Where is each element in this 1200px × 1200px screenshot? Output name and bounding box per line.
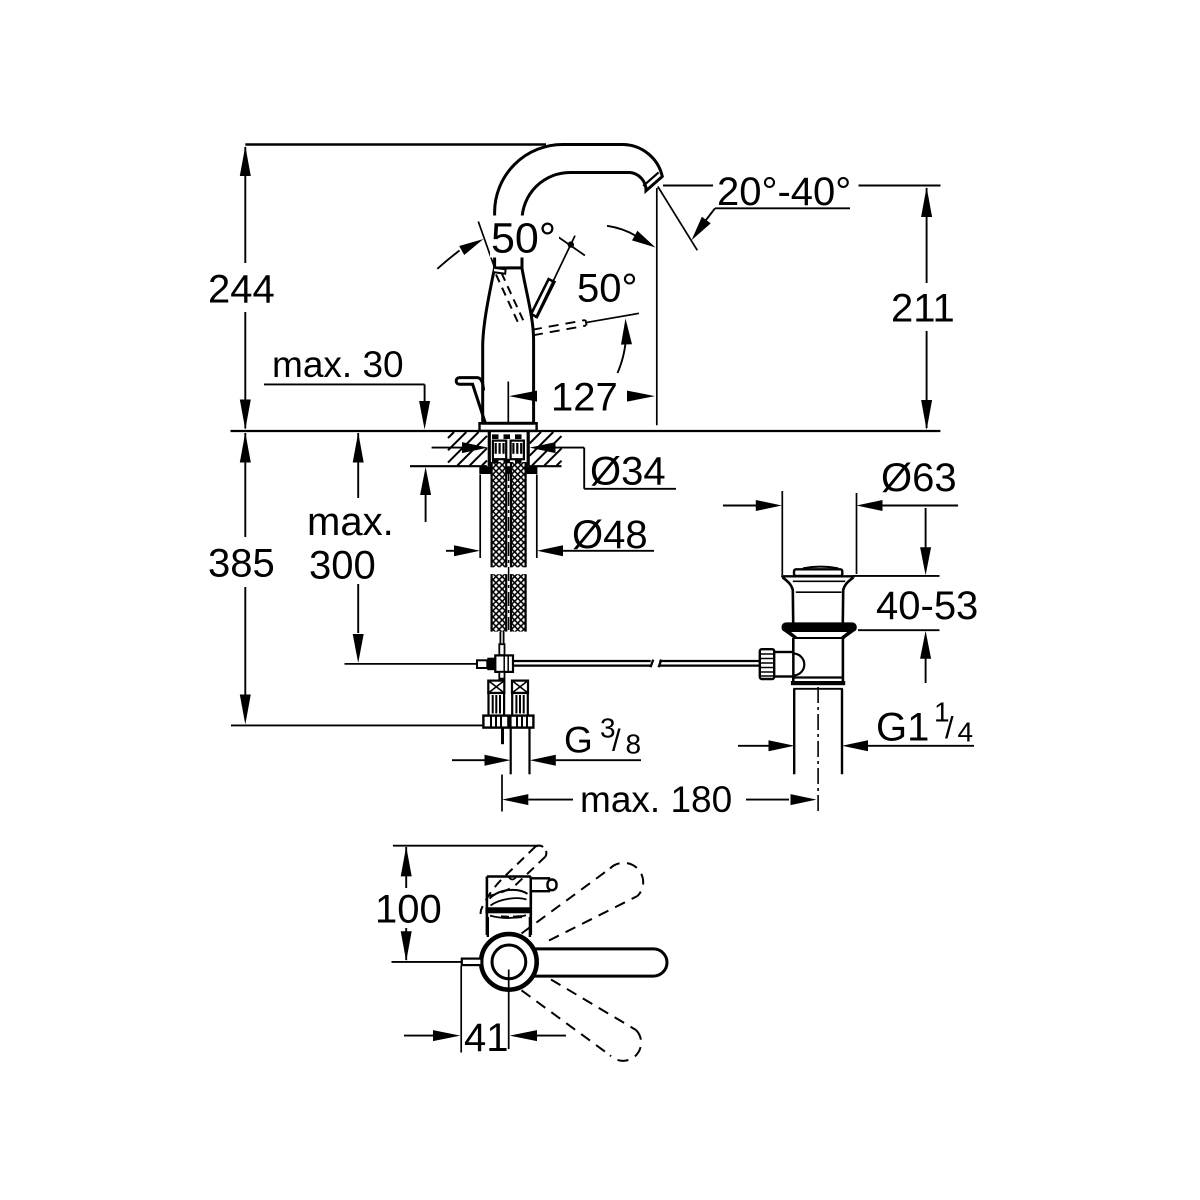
braided hose left lower section [491, 574, 507, 631]
supply pipe left in shank [493, 441, 506, 460]
dimension 40-53 bottom reference [858, 629, 940, 631]
svg-text:max. 30: max. 30 [272, 344, 404, 385]
handle boss outer circle [481, 934, 537, 990]
dimension 244 top reference line [245, 143, 546, 145]
right connector pipe walls [510, 728, 512, 775]
label G1 1/4 [876, 697, 973, 750]
svg-text:244: 244 [208, 268, 275, 312]
valve o-ring seal [782, 622, 857, 632]
dimension G3/8 [452, 713, 641, 766]
dimension O48 [446, 513, 654, 557]
spray direction reference line [586, 313, 639, 322]
spout tip vertical reference line [656, 188, 658, 425]
pop-up rod T coupler bottom stub [499, 672, 504, 679]
dashed handle position lower [522, 980, 642, 1061]
SECTION: side view dimensions [208, 145, 955, 821]
plan view cartridge housing [487, 877, 531, 936]
spray direction dashed tube [532, 320, 585, 330]
dimension 385 [208, 433, 275, 725]
svg-text:max.: max. [307, 500, 394, 544]
swivel arc arrow right of riser [607, 226, 642, 240]
svg-text:300: 300 [309, 544, 376, 588]
valve tailpipe walls [793, 689, 795, 774]
svg-text:100: 100 [375, 888, 442, 932]
valve centre line [817, 687, 819, 812]
counter underside line right [529, 465, 561, 467]
valve bottom flange [793, 676, 843, 678]
pivot centre dot [568, 241, 574, 247]
dimension max.180 [502, 779, 816, 820]
plan view top notch [509, 877, 517, 880]
solid handle pointing right [521, 949, 667, 976]
lever handle side view [459, 378, 484, 391]
svg-text:/: / [612, 723, 621, 758]
left connector tail [501, 728, 504, 745]
svg-text:Ø34: Ø34 [590, 450, 666, 494]
pop-up rod left piece [513, 660, 653, 668]
valve plunger knob [803, 567, 838, 569]
pop-up rod T coupler [477, 655, 513, 672]
hose lower tube below left braid [499, 632, 501, 645]
counter cross-section hatching left [448, 432, 487, 466]
svg-text:/: / [945, 710, 954, 745]
svg-text:211: 211 [891, 287, 955, 331]
supply pipe right in shank [511, 441, 524, 460]
valve body walls [792, 638, 795, 681]
G3/8 connector left [483, 681, 508, 728]
svg-text:20°-40°: 20°-40° [717, 170, 851, 214]
O63 extension line right [856, 493, 858, 574]
dimension max.30 [264, 344, 431, 522]
jet angle leader upper [663, 185, 713, 187]
plan view spout dashed outline [481, 847, 546, 915]
valve top flange [781, 575, 855, 577]
hose centre dash-dot line [508, 467, 510, 630]
dimension 100 top reference line [393, 845, 539, 847]
hidden lever position dashed lines [496, 275, 518, 323]
O63 extension line left [781, 491, 783, 575]
threaded shank wall right [527, 432, 530, 467]
escutcheon base plate [480, 423, 537, 431]
G3/8 connector right [510, 681, 533, 728]
dimension 211 [891, 187, 955, 430]
svg-text:8: 8 [626, 729, 642, 760]
dimension 40-53 [876, 508, 978, 683]
svg-text:50°: 50° [491, 215, 556, 263]
lever pivot axis line [536, 236, 576, 318]
svg-text:max. 180: max. 180 [580, 779, 732, 820]
jet angle leader to 211 [859, 185, 941, 187]
svg-text:G: G [564, 720, 593, 761]
label 50 degrees (handle) [490, 216, 559, 258]
svg-text:40-53: 40-53 [876, 584, 978, 628]
svg-text:G1: G1 [876, 706, 929, 750]
svg-text:385: 385 [208, 542, 275, 586]
plan view cartridge cap curves [490, 890, 528, 899]
dimension 41 [404, 1016, 566, 1060]
dimension 100 bottom reference line [392, 961, 463, 963]
dimension 40-53 top reference [853, 575, 940, 577]
svg-text:50°: 50° [577, 267, 638, 311]
jet angle lower leader [715, 207, 850, 209]
mounting washer under counter [479, 466, 537, 474]
lever rotated up 50 degrees [531, 279, 554, 317]
dimension O63 [723, 456, 958, 511]
dimension 385 bottom reference line [231, 724, 485, 726]
dimension 100 [375, 846, 442, 961]
plan view body walls below ring [487, 917, 489, 937]
dimension O48 extension lines [479, 475, 481, 559]
shank thread row upper [492, 434, 526, 439]
counter underside line left [410, 465, 487, 467]
svg-text:4: 4 [958, 717, 974, 748]
handle angle leader line [478, 222, 494, 268]
dimension 127 tick at faucet centre [507, 382, 509, 423]
threaded shank wall left [488, 432, 491, 467]
dimension G1 1/4 arrows [738, 740, 974, 751]
svg-text:41: 41 [464, 1016, 509, 1060]
pop-up rod horizontal lever to faucet [345, 663, 478, 665]
faucet body cone [483, 268, 534, 424]
handle boss inner circle [492, 945, 526, 979]
swivel arc arrow left of riser [437, 251, 459, 269]
hidden lever position tip (dashed lever) [494, 268, 506, 274]
braided hose left upper section [491, 462, 507, 567]
water jet angled line [658, 187, 698, 251]
dimension max.180 extension line left [501, 775, 503, 812]
pivot cross tick [558, 237, 585, 256]
pop-up rod right piece [659, 660, 760, 668]
dimension max.300 [307, 433, 394, 664]
svg-text:Ø63: Ø63 [881, 456, 957, 500]
dimension 127 [509, 376, 655, 420]
braided hose right lower section [510, 574, 526, 631]
rod ball joint housing [774, 652, 793, 677]
dimension O34 [432, 442, 676, 493]
spout aerator face inner line [643, 172, 658, 186]
svg-text:127: 127 [551, 376, 618, 420]
dimension 244 [208, 146, 275, 430]
spray angle arc arrow [618, 324, 627, 373]
plan view lever pivot pin [531, 878, 549, 891]
dimension 41 extension lines [460, 966, 462, 1053]
SECTION: pop-up waste valve [723, 456, 978, 812]
svg-text:Ø48: Ø48 [572, 513, 648, 557]
plan view joint ring black band [485, 907, 532, 913]
counter cross-section hatching right [530, 432, 562, 466]
pop-up rod knurled adjuster [760, 649, 774, 679]
spout nose stub left [462, 959, 482, 966]
faucet spout outline [495, 145, 663, 269]
shank thread row lower [492, 459, 526, 464]
pop-up rod T coupler top stub [499, 644, 504, 655]
braided hose right upper section [510, 462, 526, 567]
dashed handle position upper [522, 863, 644, 941]
plan view spout tip cap [536, 846, 547, 857]
SECTION: bottom view [375, 846, 667, 1061]
worktop surface line [231, 430, 941, 432]
